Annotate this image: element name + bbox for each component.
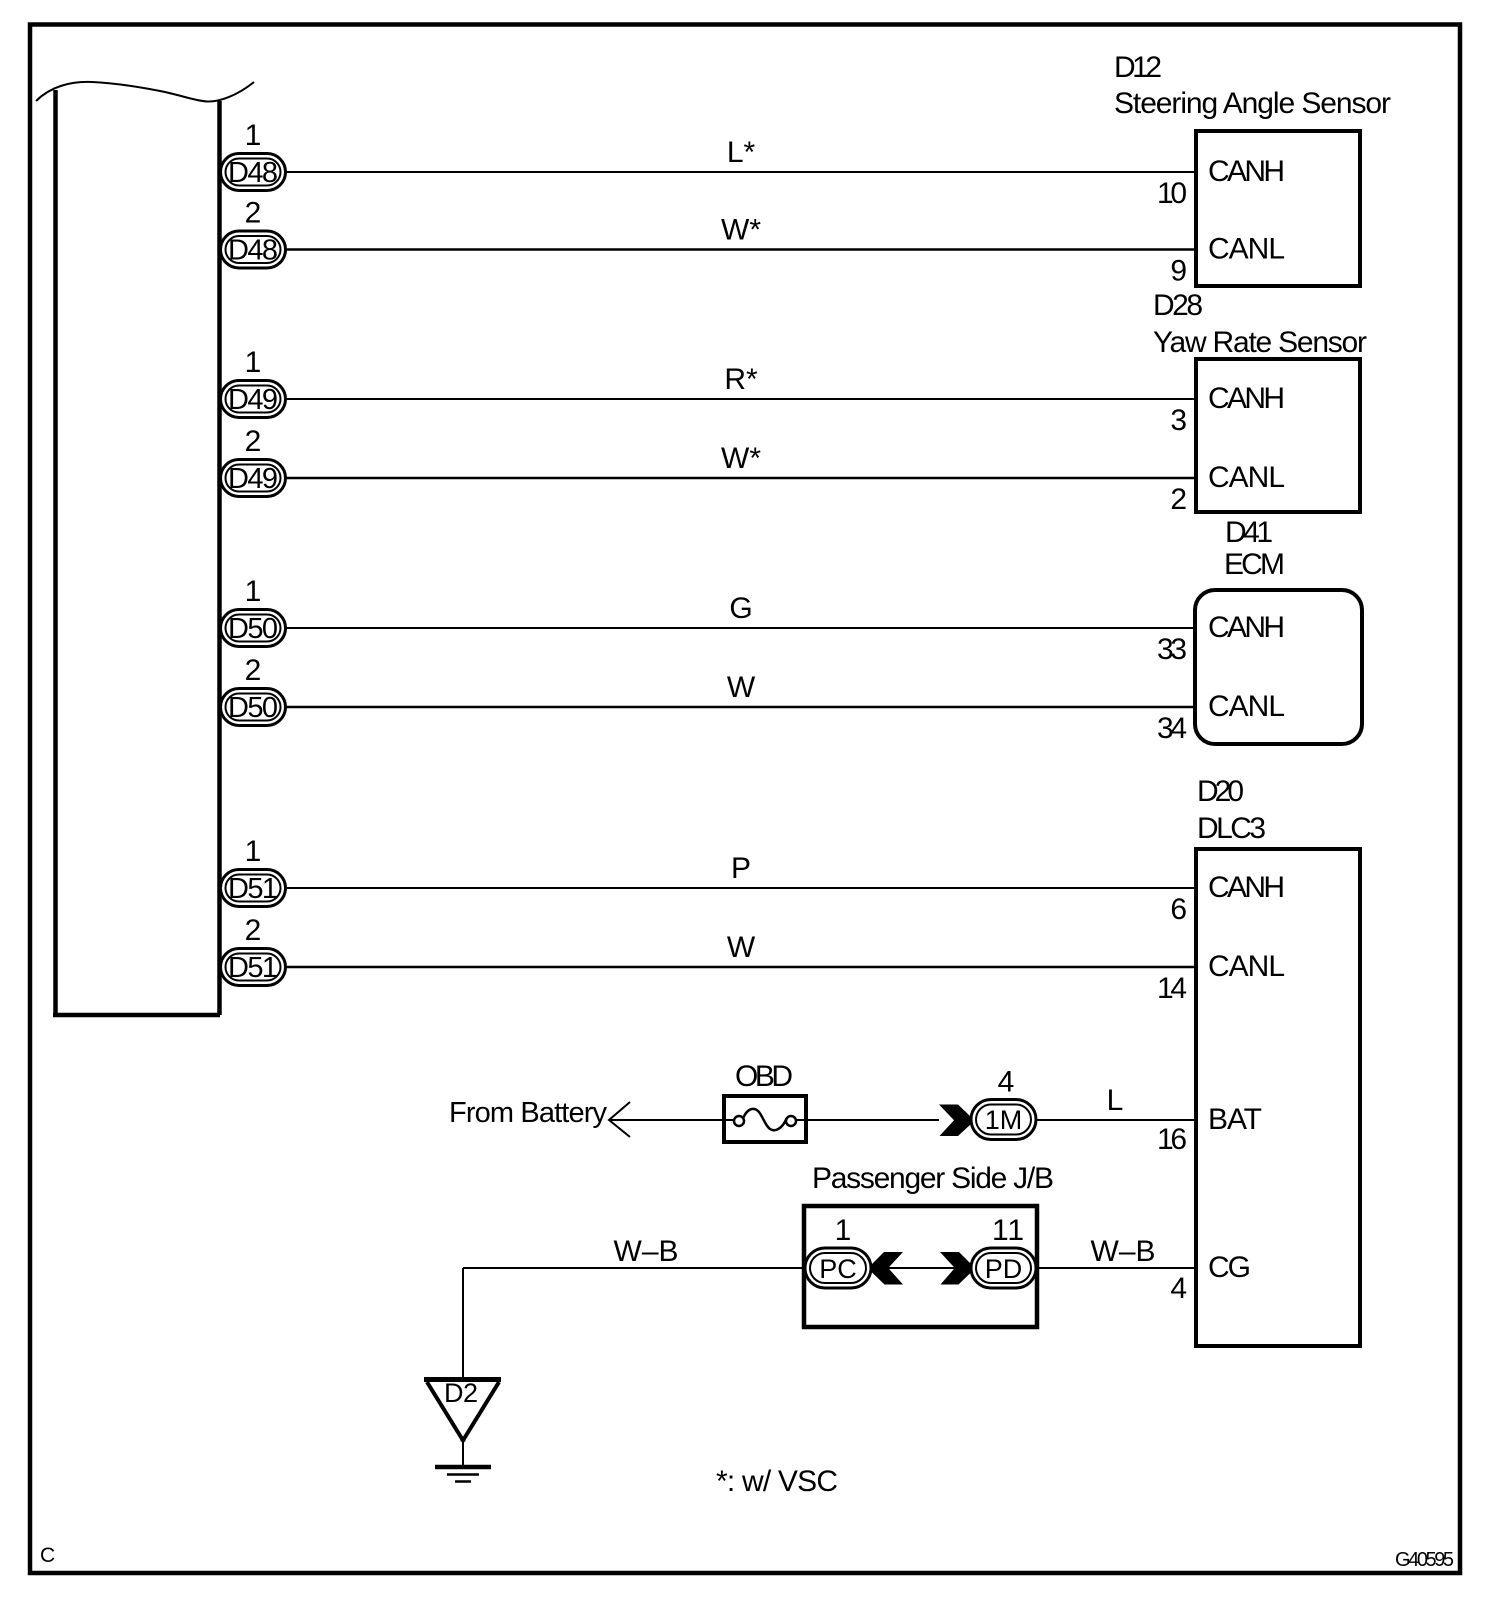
svg-text:PD: PD [985,1254,1023,1284]
svg-text:2: 2 [1170,483,1187,516]
svg-text:P: P [731,852,751,885]
svg-text:1: 1 [245,119,262,152]
svg-text:D49: D49 [228,463,278,495]
svg-text:W–B: W–B [614,1235,679,1268]
svg-text:Passenger Side J/B: Passenger Side J/B [812,1162,1054,1195]
harness block (left connector body) [53,90,220,1015]
svg-text:W–B: W–B [1091,1235,1156,1268]
wire W-B right [1036,1267,1196,1269]
component U4 D20 DLC3 [1157,775,1360,1346]
svg-text:1M: 1M [985,1105,1023,1135]
connector D48 pin 2 [221,197,286,269]
wire W* (D48) [285,248,1196,251]
component U2 D28 Yaw Rate Sensor [1153,289,1367,516]
svg-text:CANL: CANL [1208,461,1285,494]
svg-text:D50: D50 [228,613,278,645]
svg-text:ECM: ECM [1224,548,1285,581]
svg-text:4: 4 [1170,1272,1187,1305]
svg-text:2: 2 [245,654,262,687]
wire battery to fuse [609,1119,735,1121]
svg-text:From Battery: From Battery [449,1097,608,1129]
svg-text:Yaw Rate Sensor: Yaw Rate Sensor [1153,326,1367,359]
wire L* [285,171,1196,173]
svg-text:6: 6 [1170,893,1187,926]
svg-text:C: C [40,1544,55,1567]
svg-text:Steering Angle Sensor: Steering Angle Sensor [1114,87,1391,120]
svg-text:CANH: CANH [1208,871,1285,904]
connector D49 pin 1 [221,346,286,418]
break mark (wavy line) [36,82,254,102]
svg-text:D28: D28 [1153,289,1203,322]
svg-text:1: 1 [245,575,262,608]
wire L to BAT [1036,1119,1196,1121]
svg-text:4: 4 [998,1066,1015,1099]
wire between arrows [888,1267,955,1269]
svg-text:D51: D51 [228,952,278,984]
svg-text:D2: D2 [444,1378,478,1408]
svg-text:D50: D50 [228,692,278,724]
svg-text:L: L [1107,1084,1124,1117]
svg-text:9: 9 [1170,255,1187,288]
svg-text:D49: D49 [228,384,278,416]
connector D48 pin 1 [221,119,286,191]
svg-text:2: 2 [245,425,262,458]
svg-text:R*: R* [724,363,758,396]
svg-text:1: 1 [245,346,262,379]
ground D2 triangle [424,1378,501,1442]
wire W (D51) [285,966,1196,969]
connector 1M [971,1066,1036,1140]
connector D51 pin 2 [221,914,286,986]
wire W* (D49) [285,477,1196,480]
connector PD [971,1248,1036,1288]
svg-text:D12: D12 [1114,51,1162,84]
svg-text:D48: D48 [228,157,278,189]
wire W (D50) [285,706,1196,709]
connector D49 pin 2 [221,425,286,497]
junction arrow (male) [939,1105,971,1137]
svg-text:BAT: BAT [1208,1103,1262,1136]
svg-text:16: 16 [1157,1123,1187,1156]
svg-text:3: 3 [1170,404,1187,437]
svg-text:W: W [727,931,756,964]
svg-text:10: 10 [1157,177,1187,210]
connector D51 pin 1 [221,835,286,907]
svg-text:W*: W* [721,214,761,247]
svg-text:D20: D20 [1197,775,1244,808]
wire G [285,627,1196,629]
connector D50 pin 2 [221,654,286,726]
svg-text:D48: D48 [228,235,278,267]
wire P [285,887,1196,889]
connector PC [805,1248,871,1288]
svg-text:CANL: CANL [1208,233,1285,266]
fuse OBD [724,1060,806,1142]
svg-text:CANH: CANH [1208,382,1285,415]
connector D50 pin 1 [221,575,286,647]
junction arrow right (male) [940,1252,972,1285]
svg-text:D51: D51 [228,873,278,905]
arrow (from battery, open) [609,1102,630,1137]
component U1 D12 Steering Angle Sensor [1114,51,1391,288]
wire fuse to junction [796,1119,939,1121]
svg-text:33: 33 [1157,633,1187,666]
svg-text:2: 2 [245,197,262,230]
svg-text:CANH: CANH [1208,155,1285,188]
svg-text:CANH: CANH [1208,611,1285,644]
component U3 D41 ECM [1157,516,1362,745]
svg-text:OBD: OBD [735,1060,793,1093]
svg-text:*: w/ VSC: *: w/ VSC [716,1465,838,1498]
svg-text:D41: D41 [1225,516,1273,549]
svg-text:G: G [729,592,752,625]
Passenger Side J/B [804,1162,1054,1327]
wire W-B left [463,1267,805,1269]
junction arrow left (male) [872,1252,904,1285]
wire R* [285,398,1196,400]
svg-text:11: 11 [992,1214,1024,1247]
svg-text:CANL: CANL [1208,690,1285,723]
wire down to ground [462,1268,464,1378]
svg-text:34: 34 [1157,712,1187,745]
ground symbol [435,1441,491,1482]
svg-text:14: 14 [1157,972,1187,1005]
svg-text:W: W [727,671,756,704]
svg-text:2: 2 [245,914,262,947]
svg-text:1: 1 [245,835,262,868]
svg-text:W*: W* [721,442,761,475]
svg-text:CG: CG [1208,1251,1251,1284]
svg-text:CANL: CANL [1208,950,1285,983]
svg-text:L*: L* [727,136,756,169]
svg-text:DLC3: DLC3 [1197,812,1266,845]
svg-text:G40595: G40595 [1395,1549,1454,1571]
svg-text:1: 1 [835,1214,852,1247]
svg-text:PC: PC [819,1254,857,1284]
